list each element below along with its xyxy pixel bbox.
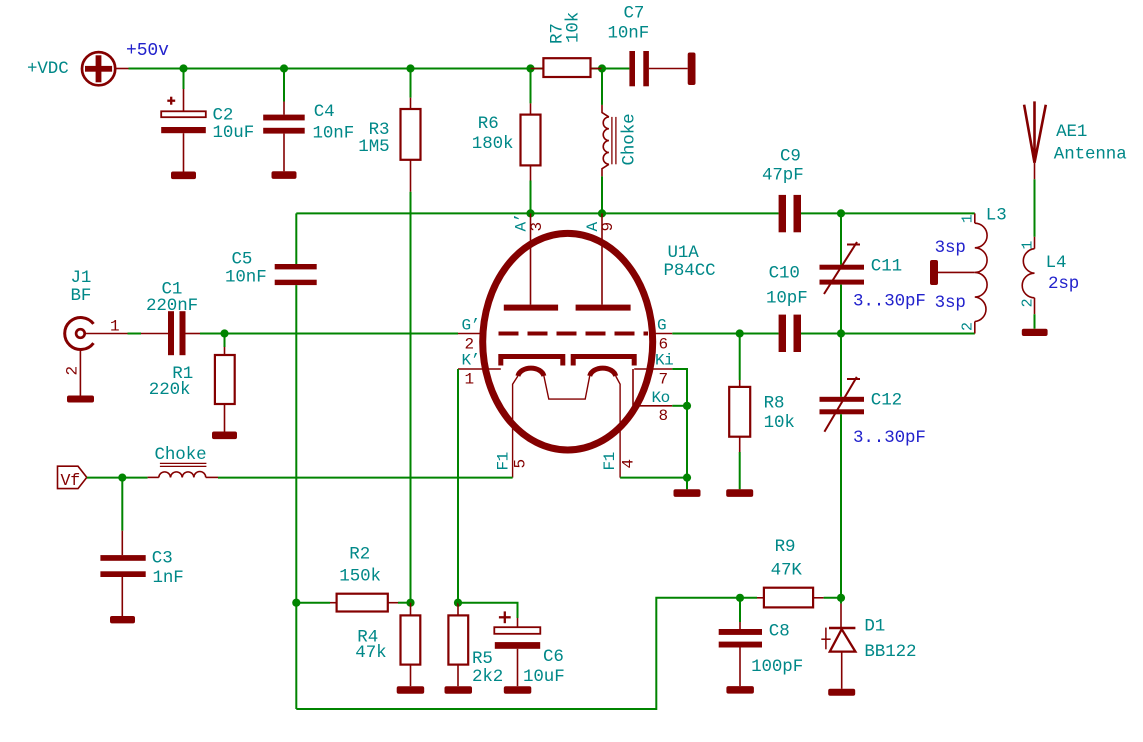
capacitor C9	[762, 147, 804, 233]
pin 4 filament F1	[601, 376, 638, 478]
wire power rail	[129, 68, 544, 70]
wire L4 to ground	[1034, 314, 1036, 329]
svg-text:3: 3	[528, 222, 546, 231]
wire K' down to R5 junction	[457, 369, 459, 603]
wire heater row left	[218, 477, 513, 479]
svg-text:10nF: 10nF	[313, 124, 355, 144]
anode plate right	[576, 305, 631, 311]
ground C7	[688, 53, 696, 86]
cathode left	[501, 357, 563, 366]
inductor L3	[959, 206, 1006, 334]
svg-text:Ki: Ki	[655, 352, 673, 370]
inductor L4	[1019, 237, 1079, 314]
svg-text:J1: J1	[71, 268, 92, 288]
junction R8 top	[736, 329, 744, 337]
svg-text:150k: 150k	[339, 566, 381, 586]
svg-text:AE1: AE1	[1056, 122, 1087, 142]
svg-text:3..30pF: 3..30pF	[853, 428, 926, 448]
svg-text:2: 2	[64, 366, 82, 375]
pin 2 grid G'	[458, 317, 483, 354]
antenna AE1	[1024, 101, 1127, 179]
capacitor C11 trimmer	[820, 213, 926, 333]
wire G row right	[672, 333, 778, 335]
svg-text:C8: C8	[769, 621, 790, 641]
capacitor C4	[263, 69, 354, 179]
junction R9/C8	[736, 594, 744, 602]
svg-text:1: 1	[465, 370, 474, 388]
svg-text:C5: C5	[232, 250, 253, 270]
wire G' row	[225, 333, 459, 335]
svg-text:BF: BF	[71, 286, 92, 306]
svg-text:G: G	[657, 317, 666, 335]
wire Ko to junction	[672, 405, 687, 407]
wire bottom rail	[296, 598, 740, 709]
ground L4	[1022, 329, 1048, 336]
L3 tap	[930, 260, 975, 285]
capacitor C6	[458, 603, 565, 694]
grid dashed line	[499, 332, 649, 336]
capacitor C2	[161, 69, 254, 180]
svg-text:+50v: +50v	[126, 41, 169, 61]
svg-text:7: 7	[659, 370, 668, 388]
resistor R3	[358, 69, 420, 192]
resistor R9	[740, 537, 841, 608]
svg-text:4: 4	[620, 459, 638, 468]
tube U1A envelope	[483, 233, 716, 450]
svg-text:1nF: 1nF	[153, 568, 184, 588]
svg-text:Vf: Vf	[61, 471, 81, 490]
junction Ko	[683, 402, 691, 410]
svg-text:5: 5	[512, 459, 530, 468]
svg-text:C7: C7	[624, 4, 645, 24]
resistor R2	[296, 545, 410, 612]
resistor R5	[445, 603, 504, 694]
svg-text:R2: R2	[349, 545, 370, 565]
svg-text:C4: C4	[314, 102, 335, 122]
svg-text:1: 1	[959, 214, 976, 223]
junction C10/C11/C12	[837, 329, 845, 337]
svg-text:2: 2	[1019, 299, 1036, 308]
svg-text:G’: G’	[462, 317, 480, 335]
pin 1 cathode K'	[458, 352, 501, 389]
svg-text:1: 1	[110, 318, 119, 336]
capacitor C8	[719, 598, 803, 694]
svg-text:47k: 47k	[355, 643, 386, 663]
svg-text:C9: C9	[780, 147, 801, 167]
svg-text:10uF: 10uF	[523, 667, 565, 687]
svg-text:L4: L4	[1046, 253, 1067, 273]
svg-text:C12: C12	[871, 391, 902, 411]
capacitor C10	[766, 264, 808, 353]
junction rail R6/R7	[526, 64, 534, 72]
svg-text:2: 2	[959, 322, 976, 331]
junction anode A	[598, 209, 606, 217]
junction rail R7/choke	[598, 64, 606, 72]
svg-text:Choke: Choke	[155, 445, 207, 465]
diode D1 varicap	[821, 598, 916, 696]
capacitor C7	[608, 4, 688, 87]
svg-text:3sp: 3sp	[935, 238, 966, 258]
svg-text:47K: 47K	[771, 560, 803, 580]
wire R3 down to R2 junction	[410, 192, 412, 603]
svg-text:180k: 180k	[472, 134, 514, 154]
svg-text:C6: C6	[543, 647, 564, 667]
power symbol +VDC	[27, 52, 129, 85]
svg-text:R6: R6	[478, 114, 499, 134]
svg-text:3sp: 3sp	[935, 293, 966, 313]
svg-text:10k: 10k	[564, 12, 584, 43]
wire anode row left	[296, 212, 778, 214]
pin 7 cathode Ki	[634, 352, 673, 389]
svg-text:C3: C3	[152, 549, 173, 569]
junction K'/R5/C6	[454, 599, 462, 607]
inductor choke vertical	[602, 69, 640, 214]
svg-text:100pF: 100pF	[751, 657, 803, 677]
wire J1 to C1	[128, 333, 142, 335]
wire heater junction to ground	[686, 478, 688, 490]
cathode right	[573, 357, 634, 366]
capacitor C5	[225, 213, 317, 709]
capacitor C3	[100, 478, 183, 624]
resistor R4	[355, 603, 424, 694]
pin 3 anode lead	[512, 213, 546, 304]
svg-text:F1: F1	[494, 452, 512, 470]
anode plate left	[504, 305, 558, 311]
wire Ki corner down	[672, 369, 687, 478]
svg-text:D1: D1	[864, 616, 885, 636]
pin 8 cathode Ko	[633, 369, 672, 425]
svg-text:8: 8	[659, 407, 668, 425]
svg-text:K’: K’	[462, 352, 480, 370]
junction anode A'	[526, 209, 534, 217]
svg-text:L3: L3	[986, 206, 1007, 226]
svg-text:1M5: 1M5	[358, 137, 389, 157]
inductor choke horizontal	[148, 445, 218, 477]
svg-text:47pF: 47pF	[762, 166, 804, 186]
svg-text:1: 1	[1019, 241, 1036, 250]
junction R2/R3/R4	[406, 599, 414, 607]
wire Vf to junction	[87, 477, 148, 479]
svg-text:C11: C11	[871, 257, 902, 277]
junction R2 left	[292, 599, 300, 607]
capacitor C12 trimmer	[820, 334, 926, 598]
junction rail R3	[406, 64, 414, 72]
svg-text:R8: R8	[764, 393, 785, 413]
wire antenna to L4	[1034, 179, 1036, 237]
svg-text:2sp: 2sp	[1048, 274, 1079, 294]
capacitor C1	[141, 280, 200, 356]
wire anode row right	[801, 212, 975, 214]
junction heater/Ko	[683, 474, 691, 482]
resistor R7	[531, 12, 603, 77]
svg-text:220nF: 220nF	[146, 296, 198, 316]
wire C1 to junction	[200, 333, 225, 335]
svg-text:U1A: U1A	[668, 243, 700, 263]
svg-text:R9: R9	[775, 537, 796, 557]
svg-text:Ko: Ko	[652, 389, 670, 407]
global label Vf	[58, 466, 87, 490]
svg-text:10nF: 10nF	[225, 268, 267, 288]
junction Vf/C3	[118, 474, 126, 482]
svg-text:Antenna: Antenna	[1054, 145, 1127, 165]
svg-text:BB122: BB122	[864, 642, 916, 662]
svg-text:P84CC: P84CC	[664, 261, 716, 281]
svg-text:10pF: 10pF	[766, 289, 808, 309]
filament arcs	[518, 368, 616, 399]
junction C9/C11	[837, 209, 845, 217]
junction C1/R1	[220, 329, 228, 337]
svg-text:C10: C10	[769, 264, 800, 284]
wire heater row right	[620, 477, 687, 479]
resistor R6	[472, 69, 541, 214]
pin 5 filament F1	[494, 376, 529, 478]
svg-text:10k: 10k	[764, 413, 795, 433]
wire G row to L3	[801, 333, 975, 335]
svg-text:2k2: 2k2	[472, 667, 503, 687]
connector J1	[64, 268, 128, 403]
svg-text:Choke: Choke	[620, 113, 640, 165]
junction R9/D1/C12	[837, 594, 845, 602]
pin 9 anode lead	[584, 213, 617, 304]
svg-text:F1: F1	[601, 452, 619, 470]
junction rail C4	[280, 64, 288, 72]
ground heater	[674, 489, 701, 497]
svg-text:10uF: 10uF	[213, 123, 255, 143]
resistor R8	[726, 334, 795, 497]
resistor R1	[149, 334, 237, 440]
svg-text:220k: 220k	[149, 380, 191, 400]
wire rail R7 to C7	[591, 68, 630, 70]
svg-text:9: 9	[599, 222, 617, 231]
pin 6 grid G	[650, 317, 672, 354]
svg-text:+VDC: +VDC	[27, 59, 69, 79]
svg-text:10nF: 10nF	[608, 24, 650, 44]
svg-text:3..30pF: 3..30pF	[853, 292, 926, 312]
junction rail C2	[179, 64, 187, 72]
